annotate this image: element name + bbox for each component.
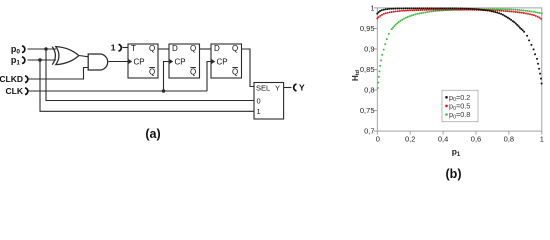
wire mux Y output [284,87,292,89]
svg-text:Q: Q [232,44,238,53]
node junction CLK [162,89,166,93]
svg-text:(a): (a) [145,127,160,141]
svg-text:1: 1 [540,135,544,144]
svg-text:Q: Q [190,68,196,77]
x tick labels [376,135,544,144]
wire p0 horizontal to XOR [28,48,57,50]
svg-text:p1: p1 [11,55,21,67]
mux SEL box [254,83,284,120]
U3 CP wedge [211,59,215,64]
svg-text:0: 0 [257,96,261,105]
curve red p0=0.5 [376,9,542,20]
svg-text:Q: Q [149,44,155,53]
node junction p0 [44,47,48,51]
svg-text:p1: p1 [452,147,461,158]
wire 1 to FF1 T [123,47,129,49]
svg-text:D: D [214,44,220,53]
U1 CP wedge [128,59,132,64]
svg-text:CLKD: CLKD [0,74,23,84]
flip-flop U3 (D) box [211,44,242,78]
U2 CP wedge [169,59,173,64]
svg-text:Htd: Htd [351,70,361,81]
U2 labels [172,44,196,77]
input pin CLK [25,88,28,95]
svg-text:T: T [131,44,136,53]
AND gate [88,54,108,70]
wire p0 drop to mux input 0 [46,49,254,101]
svg-text:0,75: 0,75 [360,106,375,115]
svg-text:CP: CP [134,58,145,67]
svg-text:Q: Q [149,68,155,77]
flip-flop U2 (D) box [169,44,200,78]
legend entry p0=0.8 [445,113,448,116]
svg-text:CLK: CLK [6,86,24,96]
curve black p0=0.2 [376,7,542,84]
XOR gate [52,47,79,65]
svg-text:0,9: 0,9 [364,45,374,54]
legend entry p0=0.2 [445,96,448,99]
svg-text:p0=0.8: p0=0.8 [449,110,470,120]
svg-text:p0: p0 [11,44,21,56]
legend box [442,90,478,121]
wire CLK trunk [28,90,208,92]
svg-text:CP: CP [217,58,228,67]
svg-text:SEL: SEL [256,83,270,92]
flip-flop U1 (T) box [128,44,158,78]
y tick labels [360,4,375,136]
svg-text:0,4: 0,4 [438,135,448,144]
input pin CLKD [25,76,28,83]
output pin Y [294,84,297,91]
svg-text:Q: Q [190,44,196,53]
svg-text:1: 1 [111,43,116,53]
wire p1 drop to mux input 1 [40,60,254,111]
U3 Qbar overline [232,67,238,69]
svg-text:CP: CP [175,58,186,67]
legend entry p0=0.5 [445,105,448,108]
input pin p1 [22,57,25,64]
svg-text:0,6: 0,6 [471,135,481,144]
wire CLKD to AND lower input [28,68,89,80]
mux labels [256,83,280,116]
y-axis ticks [374,8,378,131]
U1 labels [131,44,155,77]
wire p1 horizontal to XOR [28,59,57,61]
input pin 1 (T input) [119,44,122,51]
svg-text:(b): (b) [446,167,462,181]
wire AND output to FF1 CP [109,61,129,63]
svg-text:1: 1 [257,107,261,116]
svg-text:D: D [172,44,178,53]
chart plot box [377,8,542,131]
node junction p1 [38,58,42,62]
svg-text:0: 0 [376,135,380,144]
x-axis ticks [377,131,542,135]
svg-text:Q: Q [232,68,238,77]
svg-text:Y: Y [299,83,305,93]
svg-text:0,8: 0,8 [364,86,374,95]
wire FF1 Q to FF2 D [158,48,169,50]
wire CLK up to FF3 CP [207,62,211,92]
U3 labels [214,44,238,77]
curve green p0=0.8 [377,8,543,89]
wire CLK up to FF2 CP [164,62,170,92]
U2 Qbar overline [190,67,196,69]
svg-text:0,95: 0,95 [360,24,375,33]
svg-text:0,7: 0,7 [364,127,374,136]
svg-text:0,85: 0,85 [360,65,375,74]
svg-text:1: 1 [370,4,374,13]
svg-text:0,2: 0,2 [405,135,415,144]
wire FF3 Q to mux SEL [242,49,255,87]
wire FF2 Q to FF3 D [200,48,212,50]
U1 Qbar overline [149,67,155,69]
svg-text:0,8: 0,8 [504,135,514,144]
svg-text:Y: Y [275,83,280,92]
wire XOR output to AND upper input [79,56,88,57]
input pin p0 [22,46,25,53]
